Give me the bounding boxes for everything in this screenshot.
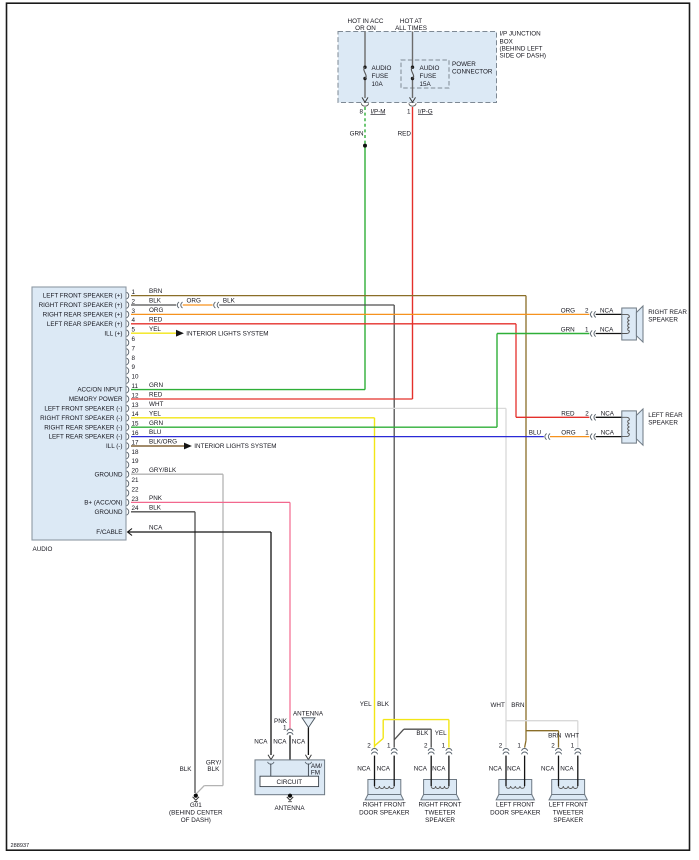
svg-text:2: 2 [367, 742, 371, 749]
svg-text:GROUND: GROUND [95, 471, 123, 478]
svg-text:GRN: GRN [350, 131, 364, 138]
wire GRY/BLK ground, pin 20, to G01 [131, 467, 223, 794]
wire BLK ground, pin 24, to G01 [131, 504, 195, 793]
svg-text:TWEETER: TWEETER [553, 809, 584, 816]
ground below antenna unit [274, 794, 305, 812]
svg-text:MEMORY POWER: MEMORY POWER [69, 396, 123, 403]
svg-text:NCA: NCA [149, 525, 163, 532]
svg-text:CIRCUIT: CIRCUIT [277, 779, 303, 786]
speaker right front tweeter [419, 756, 462, 824]
svg-text:BRN: BRN [511, 702, 525, 709]
pin 24 of audio connector [95, 505, 140, 516]
wire GRN ACC/ON input, pin 11 [131, 382, 365, 389]
connector pin 1 on PNK antenna feed [274, 718, 293, 735]
svg-text:2: 2 [499, 742, 503, 749]
svg-text:ORG: ORG [149, 307, 163, 314]
svg-text:ACC/ON INPUT: ACC/ON INPUT [77, 387, 122, 394]
svg-text:LEFT REAR SPEAKER (+): LEFT REAR SPEAKER (+) [47, 321, 123, 328]
fuse AUDIO 15A [411, 65, 440, 88]
svg-text:RIGHT REAR SPEAKER (-): RIGHT REAR SPEAKER (-) [44, 424, 122, 431]
svg-text:9: 9 [132, 364, 136, 371]
svg-text:BRN: BRN [548, 732, 562, 739]
svg-text:19: 19 [132, 458, 140, 465]
wire BLK right front speaker (+), pin 2 [131, 298, 176, 305]
svg-text:BLK: BLK [223, 298, 236, 305]
pin F/CABLE of audio unit [96, 529, 132, 537]
svg-text:RED: RED [149, 392, 163, 399]
wire NCA F/CABLE to antenna unit [128, 525, 274, 760]
svg-text:ORG: ORG [561, 308, 575, 315]
svg-text:PNK: PNK [149, 495, 163, 502]
svg-text:YEL: YEL [149, 410, 161, 417]
svg-text:NCA: NCA [601, 410, 615, 417]
svg-text:1: 1 [585, 327, 589, 334]
svg-text:DOOR SPEAKER: DOOR SPEAKER [359, 809, 410, 816]
svg-text:NCA: NCA [601, 429, 615, 436]
svg-text:F/CABLE: F/CABLE [96, 529, 122, 536]
svg-text:LEFT FRONT: LEFT FRONT [496, 802, 535, 809]
svg-text:10: 10 [132, 374, 140, 381]
connector pin 2 right front door speaker [367, 742, 377, 754]
svg-text:ORG: ORG [561, 429, 575, 436]
svg-text:NCA: NCA [254, 739, 268, 746]
pin 17 of audio connector [106, 439, 139, 450]
wire ORG right rear speaker (+), pin 3 [131, 307, 589, 314]
pin 5 of audio connector [104, 327, 135, 338]
svg-text:1: 1 [585, 429, 589, 436]
connector pin 1 right front door speaker [387, 742, 397, 754]
svg-text:ANTENNA: ANTENNA [274, 805, 305, 812]
svg-text:LEFT FRONT: LEFT FRONT [549, 802, 588, 809]
pin 1 of audio connector [43, 289, 136, 300]
wire BLK/ORG ILL (-), pin 17, to interior lights system [131, 439, 277, 451]
inline connector ORG/BLK [214, 302, 219, 308]
speaker right front door [359, 756, 410, 817]
svg-text:NCA: NCA [600, 308, 614, 315]
wire hot-at-all-times feed [395, 18, 427, 98]
circuit block inside antenna unit [260, 776, 319, 786]
svg-text:SIDE OF DASH): SIDE OF DASH) [500, 53, 547, 60]
svg-text:I/P-G: I/P-G [418, 108, 433, 115]
pin 10 of audio connector [127, 374, 139, 384]
pin 2 of audio connector [39, 298, 136, 309]
svg-text:GRY/BLK: GRY/BLK [149, 467, 177, 474]
wire labels BLK YEL at right front tweeter [416, 730, 447, 737]
svg-text:BLK: BLK [207, 766, 220, 773]
svg-text:1: 1 [517, 742, 521, 749]
speaker left front door [490, 756, 541, 817]
connector pin 2 right rear speaker [561, 308, 596, 318]
svg-text:NCA: NCA [432, 765, 446, 772]
svg-text:INTERIOR LIGHTS SYSTEM: INTERIOR LIGHTS SYSTEM [186, 330, 268, 337]
pin 3 of audio connector [43, 308, 136, 319]
pin 23 of audio connector [84, 496, 139, 507]
wire RED memory power, pin 12 [131, 392, 413, 399]
svg-text:GRN: GRN [561, 327, 575, 334]
svg-text:BLK/ORG: BLK/ORG [149, 439, 177, 446]
svg-text:ILL (-): ILL (-) [106, 443, 123, 450]
pin 9 of audio connector [127, 364, 136, 374]
connector I/P-M pin 8 [359, 97, 385, 115]
svg-text:LEFT REAR: LEFT REAR [648, 412, 683, 419]
power connector box [401, 60, 493, 88]
pin 14 of audio connector [40, 411, 139, 422]
svg-text:NCA: NCA [414, 765, 428, 772]
svg-text:TWEETER: TWEETER [425, 809, 456, 816]
connector pin 1 right rear speaker [561, 327, 596, 337]
svg-text:8: 8 [132, 355, 136, 362]
wire YEL right front speaker (-), pin 14 [131, 410, 449, 747]
wire BLU left rear speaker (-), pin 16 [131, 429, 544, 436]
wire RED from I/P-G to memory power [398, 107, 413, 399]
svg-text:288937: 288937 [11, 843, 30, 849]
svg-text:1: 1 [407, 108, 411, 115]
svg-text:NCA: NCA [292, 739, 306, 746]
svg-text:RED: RED [561, 410, 575, 417]
svg-text:23: 23 [132, 496, 140, 503]
svg-text:OR ON: OR ON [355, 25, 376, 32]
pin 21 of audio connector [127, 477, 139, 487]
svg-text:FM: FM [311, 770, 320, 777]
svg-text:(BEHIND CENTER: (BEHIND CENTER [169, 809, 223, 816]
wire RED left rear speaker (+), pin 4 [131, 316, 589, 417]
svg-text:BLK: BLK [149, 298, 162, 305]
connector socket left inside antenna box [268, 762, 274, 776]
svg-text:YEL: YEL [435, 730, 447, 737]
svg-text:RED: RED [398, 131, 412, 138]
pin 18 of audio connector [127, 449, 139, 459]
speaker left rear [622, 409, 683, 445]
wire NCA to left rear speaker (-) [596, 429, 622, 436]
connector pin 1 left front tweeter [571, 742, 581, 754]
pin 12 of audio connector [69, 392, 139, 403]
svg-text:15A: 15A [420, 81, 432, 88]
wire labels WHT BRN left front [490, 702, 524, 709]
svg-text:RIGHT REAR SPEAKER (+): RIGHT REAR SPEAKER (+) [43, 312, 123, 319]
pin 11 of audio connector [77, 383, 138, 394]
svg-text:BLU: BLU [149, 429, 162, 436]
svg-text:RIGHT FRONT SPEAKER (+): RIGHT FRONT SPEAKER (+) [39, 302, 123, 309]
svg-text:RIGHT REAR: RIGHT REAR [648, 309, 687, 316]
inline connector BLU/ORG [545, 434, 550, 440]
pin 6 of audio connector [127, 336, 136, 346]
svg-text:AUDIO: AUDIO [33, 546, 53, 553]
svg-text:SPEAKER: SPEAKER [553, 817, 583, 824]
svg-text:OF DASH): OF DASH) [181, 817, 211, 824]
svg-text:NCA: NCA [541, 765, 555, 772]
svg-text:10A: 10A [372, 81, 384, 88]
svg-text:2: 2 [424, 742, 428, 749]
svg-text:ORG: ORG [187, 298, 201, 305]
svg-text:21: 21 [132, 477, 140, 484]
svg-text:GRN: GRN [149, 382, 163, 389]
inline connector BLK/ORG [177, 302, 182, 308]
wire GRN from I/P-M to ACC/ON input [350, 107, 365, 390]
svg-text:2: 2 [551, 742, 555, 749]
svg-text:SPEAKER: SPEAKER [648, 317, 678, 324]
svg-text:FUSE: FUSE [420, 73, 437, 80]
svg-text:INTERIOR LIGHTS SYSTEM: INTERIOR LIGHTS SYSTEM [194, 443, 276, 450]
svg-text:BOX: BOX [500, 38, 514, 45]
NCA labels left front speakers [489, 765, 575, 772]
svg-text:ALL TIMES: ALL TIMES [395, 25, 427, 32]
svg-text:2: 2 [585, 410, 589, 417]
connector pin 2 left front door speaker [499, 742, 509, 754]
svg-text:8: 8 [359, 108, 363, 115]
svg-text:NCA: NCA [560, 765, 574, 772]
svg-text:(BEHIND LEFT: (BEHIND LEFT [500, 46, 543, 53]
wire BLK right front speaker (+) continues [219, 298, 431, 748]
svg-text:2: 2 [585, 308, 589, 315]
antenna unit box [255, 760, 325, 795]
svg-text:SPEAKER: SPEAKER [648, 420, 678, 427]
svg-text:1: 1 [283, 724, 287, 731]
connector socket right inside antenna box [305, 762, 311, 776]
speaker left front tweeter [549, 756, 588, 824]
svg-text:B+ (ACC/ON): B+ (ACC/ON) [84, 500, 122, 507]
svg-text:G01: G01 [190, 802, 202, 809]
pin 19 of audio connector [127, 458, 139, 468]
svg-text:7: 7 [132, 345, 136, 352]
svg-text:NCA: NCA [600, 327, 614, 334]
pin 8 of audio connector [127, 355, 136, 365]
pin 4 of audio connector [47, 317, 136, 328]
svg-text:WHT: WHT [149, 401, 163, 408]
svg-text:YEL: YEL [360, 701, 372, 708]
svg-text:22: 22 [132, 486, 140, 493]
svg-text:DOOR SPEAKER: DOOR SPEAKER [490, 809, 541, 816]
svg-text:FUSE: FUSE [372, 73, 389, 80]
connector pin 1 left front door speaker [517, 742, 527, 754]
wire NCA to right rear speaker (+) [596, 308, 622, 315]
svg-text:1: 1 [442, 742, 446, 749]
svg-text:BLK: BLK [149, 504, 162, 511]
wire ORG segment to left rear speaker (-) [550, 429, 589, 436]
svg-text:ILL (+): ILL (+) [104, 330, 122, 337]
antenna mast symbol [293, 711, 324, 760]
wire NCA antenna power below connector [289, 735, 291, 793]
svg-text:SPEAKER: SPEAKER [425, 817, 455, 824]
svg-text:WHT: WHT [565, 732, 579, 739]
svg-text:NCA: NCA [273, 739, 287, 746]
wire labels YEL BLK right front [360, 701, 390, 708]
connector pin 2 left front tweeter [551, 742, 561, 754]
svg-text:POWER: POWER [452, 61, 476, 68]
svg-text:NCA: NCA [377, 765, 391, 772]
connector I/P-G pin 1 [407, 97, 433, 115]
wire NCA to left rear speaker (+) [596, 410, 622, 417]
svg-text:RIGHT FRONT SPEAKER (-): RIGHT FRONT SPEAKER (-) [40, 415, 122, 422]
pin 13 of audio connector [44, 402, 139, 413]
svg-text:LEFT REAR SPEAKER (-): LEFT REAR SPEAKER (-) [48, 434, 122, 441]
svg-text:BLU: BLU [529, 429, 542, 436]
wire YEL ILL (+), pin 5, to interior lights system [131, 326, 269, 338]
svg-text:RIGHT FRONT: RIGHT FRONT [363, 802, 406, 809]
svg-text:GROUND: GROUND [95, 509, 123, 516]
svg-text:1: 1 [387, 742, 391, 749]
svg-text:CONNECTOR: CONNECTOR [452, 68, 493, 75]
svg-text:1: 1 [571, 742, 575, 749]
svg-text:18: 18 [132, 449, 140, 456]
connector pin 2 left rear speaker [561, 410, 595, 420]
NCA labels right front speakers [357, 765, 446, 772]
connector pin 2 right front tweeter [424, 742, 434, 754]
svg-text:WHT: WHT [490, 702, 504, 709]
pin 22 of audio connector [127, 486, 139, 496]
wire WHT left front speaker (-), pin 13 [131, 401, 578, 748]
pin 20 of audio connector [95, 468, 140, 479]
svg-text:BLK: BLK [416, 730, 429, 737]
NCA labels at antenna unit [254, 739, 306, 746]
svg-text:YEL: YEL [149, 326, 161, 333]
connector pin 1 left rear speaker [585, 429, 595, 439]
pin 16 of audio connector [48, 430, 139, 441]
pin 7 of audio connector [127, 345, 136, 355]
svg-text:6: 6 [132, 336, 136, 343]
audio unit [32, 287, 126, 553]
ground G01 [169, 759, 223, 824]
svg-text:RIGHT FRONT: RIGHT FRONT [419, 802, 462, 809]
svg-text:LEFT FRONT SPEAKER (-): LEFT FRONT SPEAKER (-) [44, 406, 122, 413]
svg-text:NCA: NCA [357, 765, 371, 772]
pin 15 of audio connector [44, 421, 139, 432]
wire NCA to right rear speaker (-) [596, 327, 622, 334]
wire labels BRN WHT at left front tweeter [548, 732, 579, 739]
svg-text:AUDIO: AUDIO [420, 65, 440, 72]
svg-text:NCA: NCA [489, 765, 503, 772]
svg-text:GRN: GRN [149, 420, 163, 427]
svg-text:BLK: BLK [180, 766, 193, 773]
I/P junction box [338, 31, 546, 103]
svg-text:NCA: NCA [507, 765, 521, 772]
wire PNK B+ (ACC/ON), pin 23, to antenna [131, 495, 290, 730]
svg-text:LEFT FRONT SPEAKER (+): LEFT FRONT SPEAKER (+) [43, 293, 123, 300]
svg-text:I/P JUNCTION: I/P JUNCTION [500, 31, 542, 38]
svg-text:BLK: BLK [377, 701, 390, 708]
fuse AUDIO 10A [363, 65, 391, 88]
wire BRN left front speaker (+), pin 1 [131, 288, 559, 747]
svg-text:I/P-M: I/P-M [371, 108, 386, 115]
svg-text:AUDIO: AUDIO [372, 65, 392, 72]
splice on GRN wire [363, 144, 367, 148]
svg-text:RED: RED [149, 316, 163, 323]
speaker right rear [622, 306, 688, 342]
svg-text:ANTENNA: ANTENNA [293, 711, 324, 718]
connector pin 1 right front tweeter [442, 742, 452, 754]
wire ORG segment of right front speaker (+) [183, 298, 213, 305]
wire GRN right rear speaker (-), pin 15 [131, 334, 589, 428]
svg-text:BRN: BRN [149, 288, 163, 295]
wire hot-in-acc feed [348, 18, 384, 98]
